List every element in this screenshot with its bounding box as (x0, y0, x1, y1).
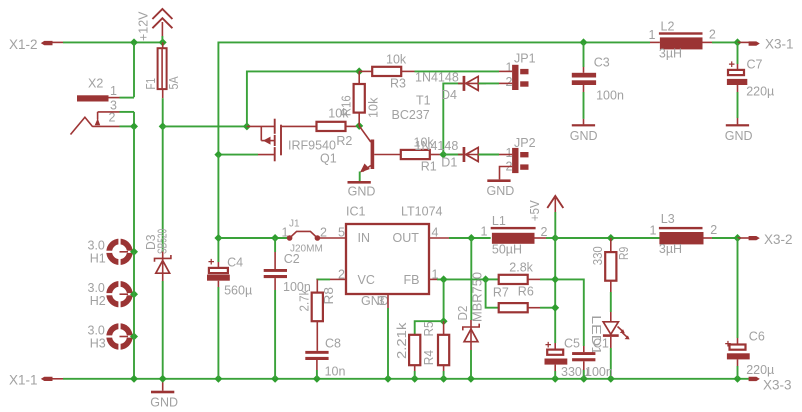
svg-text:3µH: 3µH (659, 47, 682, 61)
wire branch to C1 (555, 279, 584, 346)
ground symbol on rail (150, 379, 178, 410)
svg-text:1: 1 (110, 84, 117, 98)
capacitor C8 10n (305, 337, 345, 379)
resistor R7 (493, 286, 555, 313)
resistor R8 2.7k vertical (298, 287, 337, 351)
wire T1 emitter to ground (359, 172, 361, 182)
svg-text:10k: 10k (366, 97, 380, 118)
svg-text:OUT: OUT (393, 231, 420, 245)
ground under C7 (725, 118, 753, 143)
svg-text:3.0: 3.0 (88, 239, 105, 253)
svg-text:GND: GND (487, 184, 515, 198)
wire switch node down to C4 (217, 155, 219, 262)
svg-text:10n: 10n (325, 365, 346, 379)
diode D2 MBR750 (456, 272, 485, 379)
node rail junction C5 (551, 375, 559, 383)
resistor R16 10k vertical (340, 71, 381, 126)
svg-text:2.8k: 2.8k (509, 261, 533, 275)
svg-text:GND: GND (570, 129, 598, 143)
svg-text:X3-3: X3-3 (763, 378, 792, 393)
wire gnd column down to H1 (133, 126, 135, 250)
svg-text:C7: C7 (747, 58, 763, 72)
node junction C2 top (271, 234, 279, 242)
node junction +5V (551, 234, 559, 242)
wire IN row (218, 237, 289, 239)
svg-text:R4: R4 (422, 350, 436, 365)
supply +5V (528, 196, 563, 238)
svg-text:C4: C4 (227, 256, 243, 270)
node junction +12V / F1 top (159, 38, 167, 46)
ground under JP2 (487, 179, 515, 198)
svg-text:C1: C1 (593, 337, 609, 351)
node junction Q1 gate (243, 122, 251, 130)
svg-text:H2: H2 (90, 294, 106, 308)
wire D3 column (162, 126, 164, 251)
svg-text:D2: D2 (456, 306, 470, 321)
resistor R9 330 vertical (591, 238, 631, 292)
svg-text:3.0: 3.0 (88, 324, 105, 338)
svg-text:H1: H1 (90, 252, 106, 266)
capacitor C3 100n (572, 42, 624, 119)
svg-text:J20MM: J20MM (290, 244, 323, 255)
node junction fused rail (159, 122, 167, 130)
svg-text:D4: D4 (441, 88, 457, 102)
svg-text:2: 2 (709, 28, 716, 42)
pin X3-1 (738, 37, 794, 52)
svg-text:SB520: SB520 (156, 229, 170, 254)
svg-text:1: 1 (481, 225, 488, 239)
svg-text:1: 1 (506, 146, 513, 160)
node junction R3 / R16 top (355, 67, 363, 75)
svg-text:3: 3 (378, 294, 385, 308)
ground under C3 (570, 119, 598, 143)
svg-text:IRF9540: IRF9540 (288, 139, 336, 153)
svg-text:R16: R16 (340, 95, 354, 116)
capacitor C6 220u (725, 238, 774, 379)
connector JP2 (499, 136, 536, 179)
svg-text:R5: R5 (422, 321, 436, 336)
svg-text:X3-2: X3-2 (764, 232, 793, 247)
wire L2 to X3-1 (712, 41, 738, 43)
svg-text:1: 1 (506, 61, 513, 75)
node junction R4/R5 branch (440, 317, 448, 325)
node junction X3-2 / C6 (734, 234, 742, 242)
svg-text:1: 1 (649, 28, 656, 42)
op-amp U1 box IC1 LT1074 (338, 205, 443, 309)
wire gate junction up (247, 71, 359, 126)
node rail junction C6 (734, 375, 742, 383)
wire switched rail top (218, 42, 583, 154)
resistor R6 2.8k (486, 261, 556, 299)
supply +12V (137, 9, 173, 42)
node junction R9 top (607, 234, 615, 242)
svg-text:R8: R8 (322, 287, 336, 305)
svg-text:330: 330 (591, 246, 605, 265)
svg-text:IC1: IC1 (346, 205, 366, 219)
capacitor C4 560u (207, 256, 252, 379)
diode D4 1N4148 (415, 71, 486, 103)
svg-text:GND: GND (361, 294, 389, 308)
node junction FB (440, 275, 448, 283)
hole H2 3.0 (88, 280, 139, 308)
resistor R2 10k (317, 107, 360, 149)
svg-text:2.21k: 2.21k (395, 322, 409, 359)
inductor L1 50uH (481, 214, 548, 257)
svg-text:5A: 5A (167, 76, 181, 90)
hole H3 3.0 (88, 323, 139, 351)
svg-text:FB: FB (404, 273, 420, 287)
svg-text:220µ: 220µ (746, 363, 774, 377)
svg-text:D1: D1 (441, 156, 457, 170)
svg-text:LT1074: LT1074 (401, 205, 443, 219)
svg-text:IN: IN (358, 231, 371, 245)
wire FB pin (429, 278, 486, 280)
wire X1-2 to junction (63, 41, 163, 43)
svg-text:X1-1: X1-1 (9, 373, 38, 388)
wire R7 branch (486, 279, 499, 307)
svg-text:R6: R6 (518, 285, 534, 299)
wire VC pin (317, 279, 346, 292)
svg-text:C5: C5 (564, 337, 580, 351)
svg-text:R2: R2 (336, 134, 352, 148)
node junction X2 gnd column (130, 122, 138, 130)
svg-text:+5V: +5V (528, 200, 542, 222)
node rail junction H column (130, 375, 138, 383)
svg-text:X3-1: X3-1 (765, 37, 794, 52)
wire holes column to rail (133, 252, 135, 379)
node rail junction R5 (440, 375, 448, 383)
svg-text:+: + (208, 257, 214, 269)
transistor T1 BC237 (359, 94, 430, 173)
node junction X2-1 column (130, 38, 138, 46)
svg-text:GND: GND (150, 396, 178, 410)
svg-text:L1: L1 (492, 214, 506, 228)
node junction C3 top (580, 38, 588, 46)
wire X2-3 corner down (133, 112, 135, 127)
wire fused rail to gate junction (163, 125, 247, 127)
node junction D1 / D4 branch (439, 151, 447, 159)
capacitor C1 100n (572, 337, 613, 380)
svg-text:X2: X2 (88, 77, 103, 91)
svg-text:1: 1 (650, 224, 657, 238)
capacitor C7 220u (727, 42, 774, 118)
svg-text:10k: 10k (386, 53, 407, 67)
node junction R6 left (482, 275, 490, 283)
svg-text:GND: GND (348, 185, 376, 199)
wire R9 to LED (610, 292, 612, 312)
pin X3-2 (738, 232, 793, 247)
wire D3 to rail (162, 281, 164, 379)
wire +5V row to R9 / L3 (555, 237, 660, 239)
wire IC gnd pin (387, 294, 389, 379)
node rail junction R4 (411, 375, 419, 383)
svg-text:2: 2 (541, 225, 548, 239)
wire X2-1 to column (120, 97, 135, 99)
node junction OUT / D2 (467, 234, 475, 242)
wire +5V column down (554, 238, 556, 343)
ground under T1 (348, 181, 376, 199)
svg-text:VC: VC (358, 273, 375, 287)
diode D3 SB520 (144, 229, 171, 281)
svg-text:Q1: Q1 (320, 152, 337, 166)
node rail junction IC gnd (384, 375, 392, 383)
svg-text:X1-2: X1-2 (9, 37, 38, 52)
wire rail to C3 and X3-1 (584, 41, 651, 43)
svg-text:C8: C8 (325, 337, 341, 351)
svg-text:1N4148: 1N4148 (415, 139, 459, 153)
svg-text:GND: GND (725, 129, 753, 143)
node rail junction D3 (159, 375, 167, 383)
wire branch to R4 (415, 321, 444, 335)
svg-text:2: 2 (710, 223, 717, 237)
svg-text:50µH: 50µH (492, 243, 522, 257)
svg-text:220µ: 220µ (746, 85, 774, 99)
svg-text:L3: L3 (661, 212, 675, 226)
svg-text:R3: R3 (390, 77, 406, 91)
node rail junction C8 (313, 375, 321, 383)
capacitor C5 330u (545, 337, 590, 380)
pin X1-2 (9, 37, 63, 52)
wire D1 to JP2-1 (478, 154, 499, 156)
svg-text:3µH: 3µH (659, 242, 682, 256)
node rail junction LED (607, 375, 615, 383)
node junction Q1 drain (214, 151, 222, 159)
inductor L3 3uH (650, 212, 718, 256)
resistor R5 vertical (422, 321, 449, 379)
resistor R3 10k (359, 53, 407, 91)
capacitor C2 100n (264, 238, 311, 379)
wire D4 to JP1-2 (478, 82, 499, 84)
svg-text:2: 2 (506, 75, 513, 89)
connector JP1 (499, 52, 536, 91)
node junction R7 right (551, 304, 559, 312)
node rail junction C2 (271, 375, 279, 383)
wire D1 row left (443, 154, 462, 156)
connector X2 (barrel jack) (71, 77, 120, 135)
svg-text:5: 5 (338, 226, 345, 240)
inductor L2 3uH (649, 20, 716, 61)
svg-text:+12V: +12V (137, 11, 151, 41)
svg-text:T1: T1 (416, 94, 431, 108)
diode D1 1N4148 (415, 139, 487, 170)
svg-text:J1: J1 (289, 219, 300, 230)
svg-text:2.7k: 2.7k (298, 289, 312, 312)
wire ground rail (63, 378, 750, 380)
node rail junction C4 (214, 375, 222, 383)
pin X3-3 (749, 377, 792, 393)
resistor R4 2.21k vertical (395, 322, 436, 379)
fuse F1 5A (144, 42, 181, 98)
svg-text:F1: F1 (144, 78, 158, 89)
wire D4 branch vertical (443, 83, 462, 154)
wire R3 to JP1-1 (401, 70, 414, 72)
svg-text:100n: 100n (596, 89, 624, 103)
svg-text:C3: C3 (594, 56, 610, 70)
transistor Q1 IRF9540 (247, 119, 337, 166)
pin X1-1 (9, 373, 63, 388)
svg-text:C6: C6 (749, 330, 765, 344)
svg-text:R1: R1 (421, 160, 437, 174)
wire FB branch down (443, 279, 445, 321)
node junction R2 / R16 / T1 (355, 122, 363, 130)
LED LED1 (589, 312, 630, 379)
svg-text:JP1: JP1 (514, 52, 536, 66)
node junction R6 right (551, 275, 559, 283)
wire X2-2 to junction (120, 125, 135, 127)
wire L1 to +5V junction (546, 237, 555, 239)
wire F1 bottom to mid row (162, 98, 164, 126)
svg-text:R9: R9 (617, 247, 631, 260)
wire X2-3 to column (120, 111, 135, 113)
hole H1 3.0 (88, 238, 139, 266)
wire X2-1 vertical (133, 42, 135, 97)
svg-text:R7: R7 (493, 286, 509, 300)
svg-text:1N4148: 1N4148 (415, 71, 459, 85)
wire L3 to X3-2 (712, 237, 738, 239)
wire D2 column (470, 238, 472, 320)
svg-text:100n: 100n (585, 365, 613, 379)
svg-text:L2: L2 (661, 20, 675, 34)
svg-text:BC237: BC237 (392, 108, 430, 122)
node rail junction D2 (467, 375, 475, 383)
wire drain row (218, 154, 258, 156)
node junction IN row left (214, 234, 222, 242)
wire OUT pin (429, 237, 491, 239)
jumper J1 J20MM (282, 219, 347, 255)
svg-text:H3: H3 (90, 337, 106, 351)
svg-text:560µ: 560µ (224, 284, 252, 298)
resistor R1 10k (401, 136, 444, 174)
node junction X3-1 / C7 (734, 38, 742, 46)
node rail junction C1 (580, 375, 588, 383)
svg-text:3.0: 3.0 (88, 281, 105, 295)
